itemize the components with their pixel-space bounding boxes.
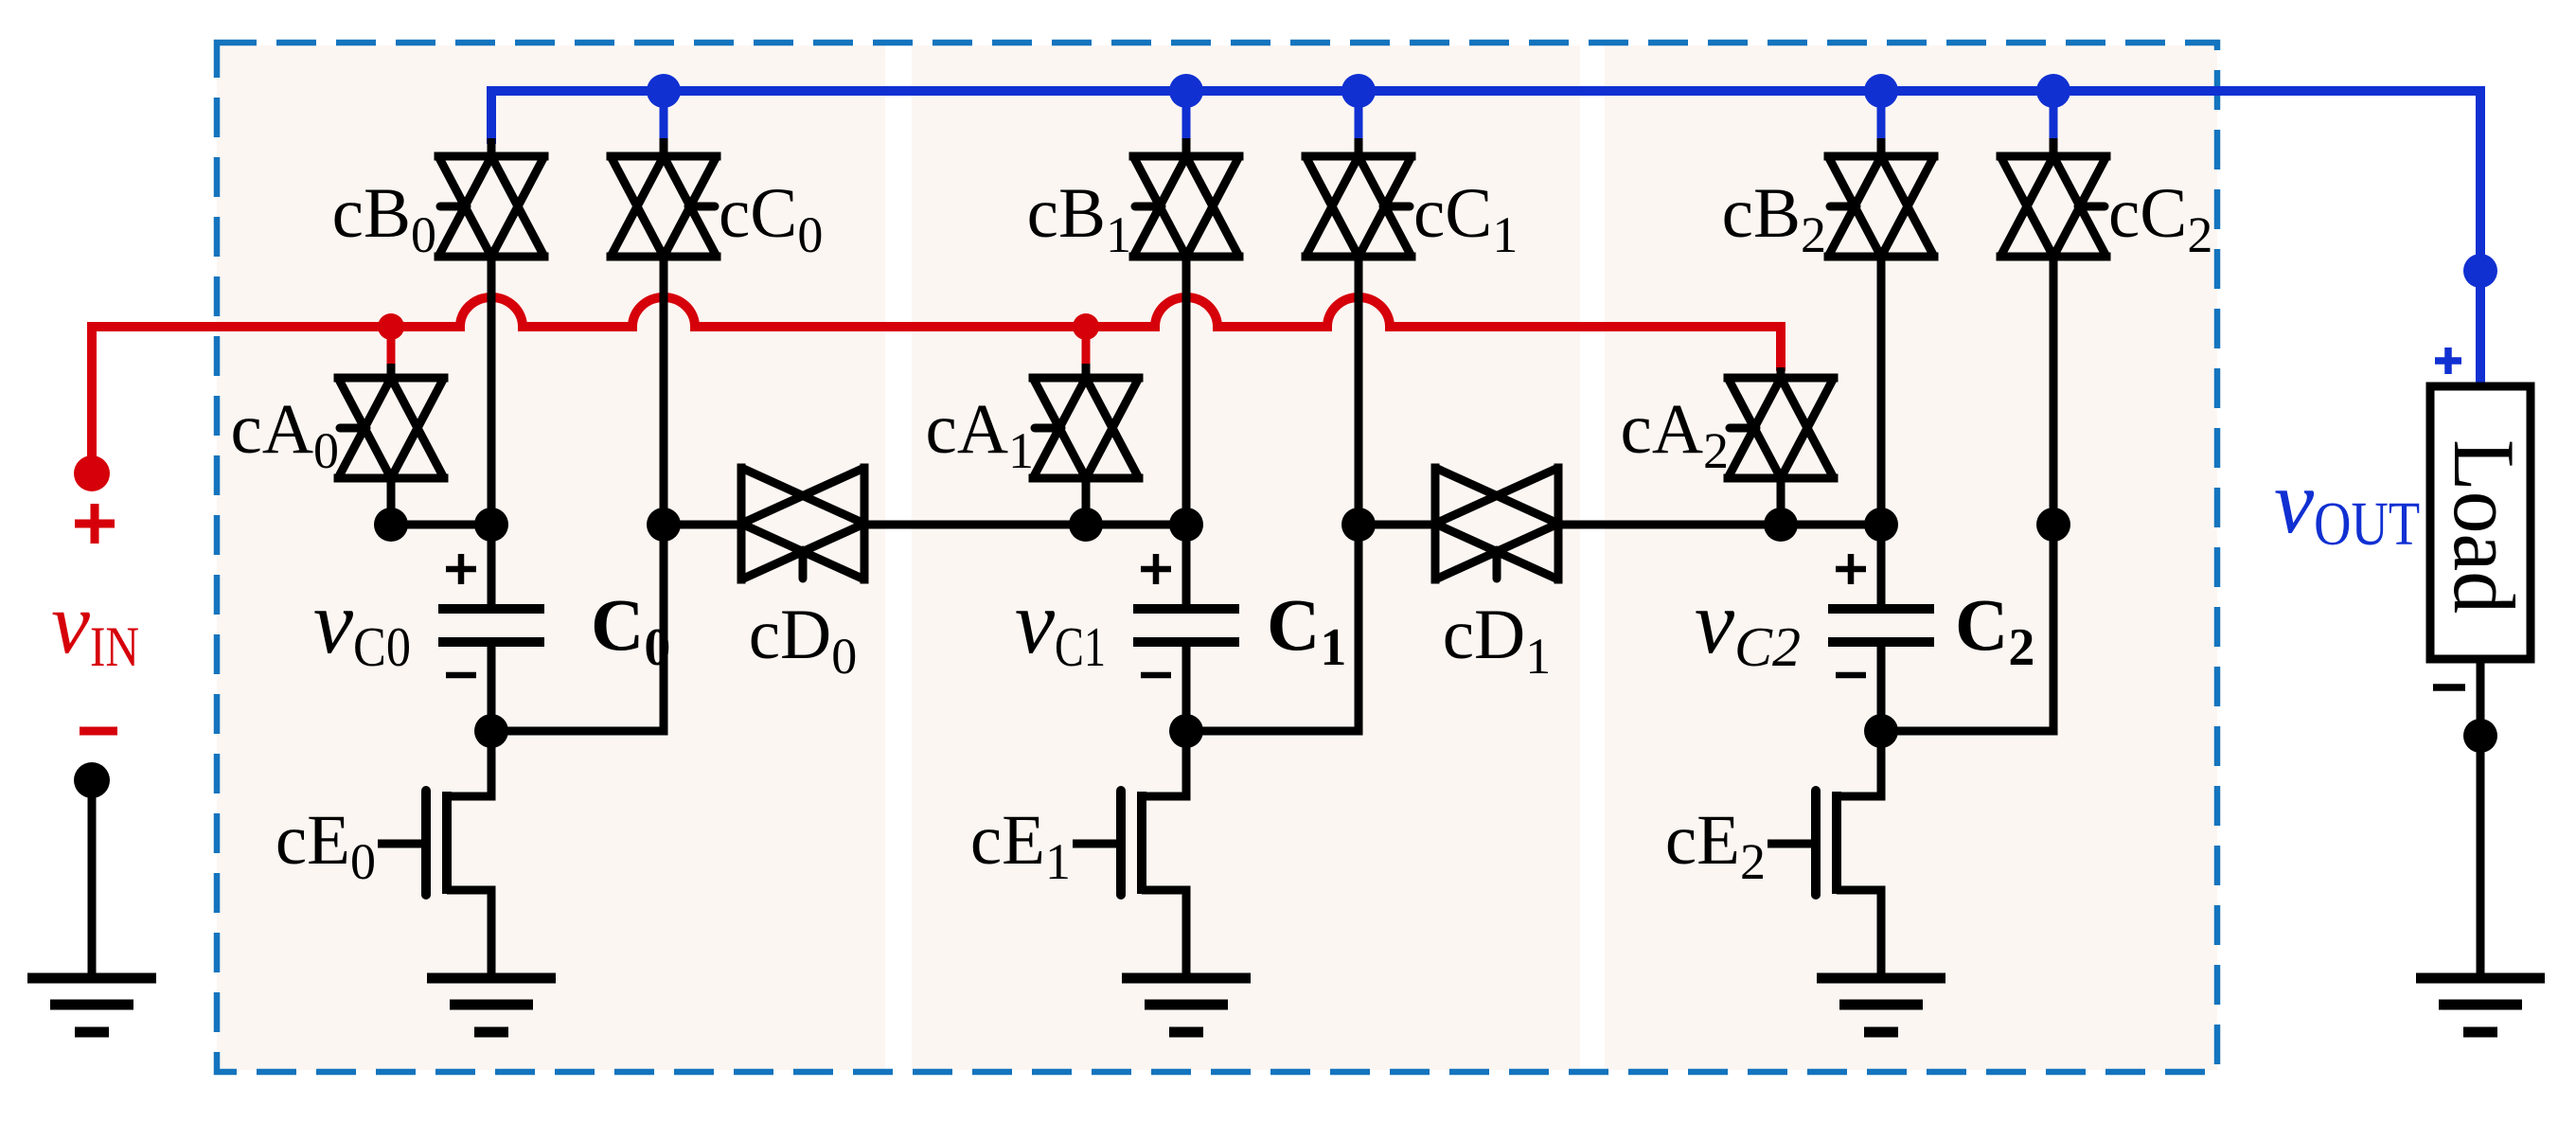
vIN - terminal (black dot) [74,762,110,798]
wire: black stub to cA2 [1777,367,1785,378]
wire: cA2 bowtie to node row [1777,478,1785,525]
junction: node row at cC2 [2036,508,2070,542]
junction: cap C2 bottom [1864,714,1898,748]
switch cC2 [2000,156,2106,257]
wire: red stub to cA0 [387,327,396,378]
cap C1 + mark [1141,554,1171,584]
switch cC1 [1306,156,1412,257]
junction: blue wire above load [2463,254,2497,288]
wire: cA0 bowtie to node row [387,478,396,525]
vIN + terminal (red dot) [74,455,110,491]
cap C0 - mark [446,672,476,679]
label cA1 [926,390,1034,479]
wire: cA1 bowtie to node row [1082,478,1091,525]
wire: cap C1 bottom lead [1182,646,1191,731]
wire: cap C0 bottom lead [488,646,496,731]
converter boundary (blue dashed box) [217,43,2217,1072]
transistor cE1 (NMOS) [1073,731,1186,978]
wire: blue stub to cB0 [488,138,496,156]
wire: node row cA1 to cB1 [1086,521,1186,529]
label cA2 [1621,390,1729,479]
junction: cap C1 bottom [1169,714,1203,748]
label cD0 [749,596,857,685]
ground (stage 1) [1122,978,1251,1032]
stage 1 background panel [912,45,1580,1070]
wire: red stub to cA1 [1082,327,1091,378]
cap C2 - mark [1836,672,1866,679]
wire: vIN - to ground [88,780,97,978]
wire: blue stub to cC1 [1355,91,1363,156]
transistor cE2 (NMOS) [1768,731,1881,978]
ground (vIN) [27,978,156,1032]
wire: blue stub to cC2 [2050,91,2058,156]
label cE1 [970,801,1071,890]
label vIN [51,575,139,678]
switch cB1 [1133,156,1239,257]
junction: red rail / cA0 [378,313,404,340]
label cE0 [275,801,376,890]
capacitor C0 [438,609,544,642]
label cC1 [1413,174,1518,263]
wire: blue output rail (top) [491,91,2480,386]
capacitor C1 [1133,609,1239,642]
junction: blue rail / cC2 [2036,74,2070,108]
junction: node row at cC1 [1341,508,1376,542]
wire: node to cD0 left [664,521,741,529]
label vC0 [313,572,411,678]
label cB2 [1722,174,1826,263]
junction: blue rail / cB1 [1169,74,1203,108]
wire: blue stub to cC0 [660,91,668,156]
vIN + polarity mark [75,504,115,544]
wire: cap C2 bottom lead [1877,646,1886,731]
label cA0 [231,390,339,479]
junction: node row at cB2 [1864,508,1898,542]
label cB0 [332,174,436,263]
wire: red vIN rail with hops [92,297,1781,473]
switch cD1 [1435,468,1558,579]
load + polarity mark [2435,348,2461,374]
label cD1 [1443,596,1551,685]
switch cB0 [438,156,544,257]
wire: node row cA0 to cB0 [391,521,491,529]
wire: cC1 column (bowtie to cap bottom row) [1186,257,1359,731]
svg-text:vIN: vIN [51,575,139,678]
wire: node row cA2 to cB2 [1781,521,1881,529]
wire: blue stub to cB2 [1877,91,1886,156]
switch cA0 [338,378,444,478]
svg-text:Load: Load [2436,439,2532,614]
wire: cap C0 top lead [488,525,496,605]
capacitor C2 [1828,609,1934,642]
transistor cE0 (NMOS) [378,731,491,978]
wire: cB2 bowtie to node row [1877,257,1886,525]
junction: load bottom [2463,719,2497,753]
junction: node row at cB1 [1169,508,1203,542]
label C0 [591,583,670,677]
switch cA2 [1728,378,1834,478]
wire: cC0 column (bowtie to cap bottom row) [491,257,664,731]
switch cC0 [611,156,717,257]
junction: node row at cA2 [1764,508,1798,542]
junction: node row at cA0 [374,508,408,542]
wire: load bottom to ground [2477,659,2485,978]
stage 2 background panel [1605,45,2217,1070]
junction: blue rail / cC1 [1341,74,1376,108]
label cC0 [719,174,823,263]
stage 0 background panel [217,45,885,1070]
wire: cap C2 top lead [1877,525,1886,605]
cap C2 + mark [1836,554,1866,584]
junction: node row at cA1 [1069,508,1103,542]
switch cD0 [741,468,864,579]
junction: blue rail / cB2 [1864,74,1898,108]
wire: cap C1 top lead [1182,525,1191,605]
label vC1 [1015,572,1106,678]
junction: node row at cB0 [474,508,508,542]
switch cB2 [1828,156,1934,257]
cap C1 - mark [1141,672,1171,679]
junction: blue rail / cC0 [647,74,681,108]
wire: blue stub to cB1 [1182,91,1191,156]
cap C0 + mark [446,554,476,584]
wire: cD0 right to next stage node row [864,521,1186,529]
wire: cC2 column (bowtie to cap bottom row) [1881,257,2053,731]
ground (stage 0) [427,978,556,1032]
svg-text:vOUT: vOUT [2274,452,2420,559]
wire: node to cD1 left [1359,521,1435,529]
junction: cap C0 bottom [474,714,508,748]
label C2 [1955,583,2034,677]
switch cA1 [1033,378,1139,478]
label vC2 [1695,572,1801,678]
vIN - polarity mark [80,727,117,736]
label C1 [1267,583,1346,677]
ground (load) [2416,978,2545,1032]
wire: cB1 bowtie to node row [1182,257,1191,525]
label vOUT [2274,452,2420,559]
load (resistor box) [2430,386,2532,659]
wire: cB0 bowtie to node row [488,257,496,525]
wire: cD1 right to next stage node row [1558,521,1881,529]
ground (stage 2) [1817,978,1945,1032]
label cE2 [1665,801,1766,890]
junction: red rail / cA1 [1073,313,1099,340]
label cC2 [2108,174,2212,263]
junction: node row at cC0 [647,508,681,542]
load - polarity mark [2433,684,2465,691]
label cB1 [1027,174,1131,263]
